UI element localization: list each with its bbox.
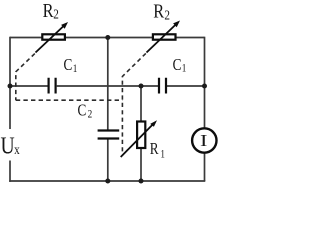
node bottom middle — [105, 179, 110, 184]
wire middle vertical lower — [107, 140, 109, 182]
svg-text:x: x — [14, 142, 20, 157]
capacitor C1 left — [49, 78, 56, 94]
svg-text:R: R — [43, 0, 54, 23]
dashed gang link from R2 left — [16, 54, 35, 101]
svg-text:U: U — [1, 132, 15, 160]
wire right lower — [204, 154, 206, 181]
svg-text:I: I — [200, 133, 207, 151]
ammeter I — [192, 128, 216, 152]
svg-text:2: 2 — [88, 109, 93, 121]
capacitor C1 right — [159, 78, 166, 94]
svg-text:1: 1 — [73, 63, 78, 75]
node right C1 row — [202, 84, 207, 89]
wire middle vertical upper — [107, 38, 109, 130]
svg-text:C: C — [64, 57, 73, 75]
wire R1 branch lower — [140, 149, 142, 182]
resistor R2 left arrow — [36, 26, 64, 52]
resistor R1 box — [137, 122, 145, 149]
svg-text:C: C — [173, 57, 182, 75]
wire bottom — [9, 180, 205, 182]
wire R1 branch upper — [140, 86, 142, 121]
resistor R2 right box — [153, 34, 176, 39]
wire left (with gap for Ux terminals) — [9, 37, 11, 129]
svg-text:1: 1 — [182, 63, 187, 75]
capacitor C2 — [98, 131, 120, 139]
node top middle — [105, 35, 110, 40]
wire left lower — [9, 161, 11, 182]
svg-text:2: 2 — [53, 6, 59, 21]
svg-text:1: 1 — [160, 149, 165, 161]
svg-text:R: R — [150, 141, 159, 159]
resistor R2 left box — [42, 34, 65, 39]
svg-text:2: 2 — [164, 7, 170, 22]
dashed gang link from R2 right down to R1 — [122, 53, 145, 152]
svg-text:R: R — [153, 0, 164, 23]
wire top — [10, 37, 205, 39]
resistor R1 arrow — [121, 125, 153, 157]
wire C1 row — [10, 85, 205, 87]
dashed gang link horizontal — [16, 99, 123, 101]
wire right upper — [204, 37, 206, 128]
node R1 top — [139, 84, 144, 89]
node left C1 row — [8, 84, 13, 89]
resistor R2 right arrow — [147, 25, 176, 53]
svg-text:C: C — [78, 102, 87, 120]
node bottom R1 — [139, 179, 144, 184]
